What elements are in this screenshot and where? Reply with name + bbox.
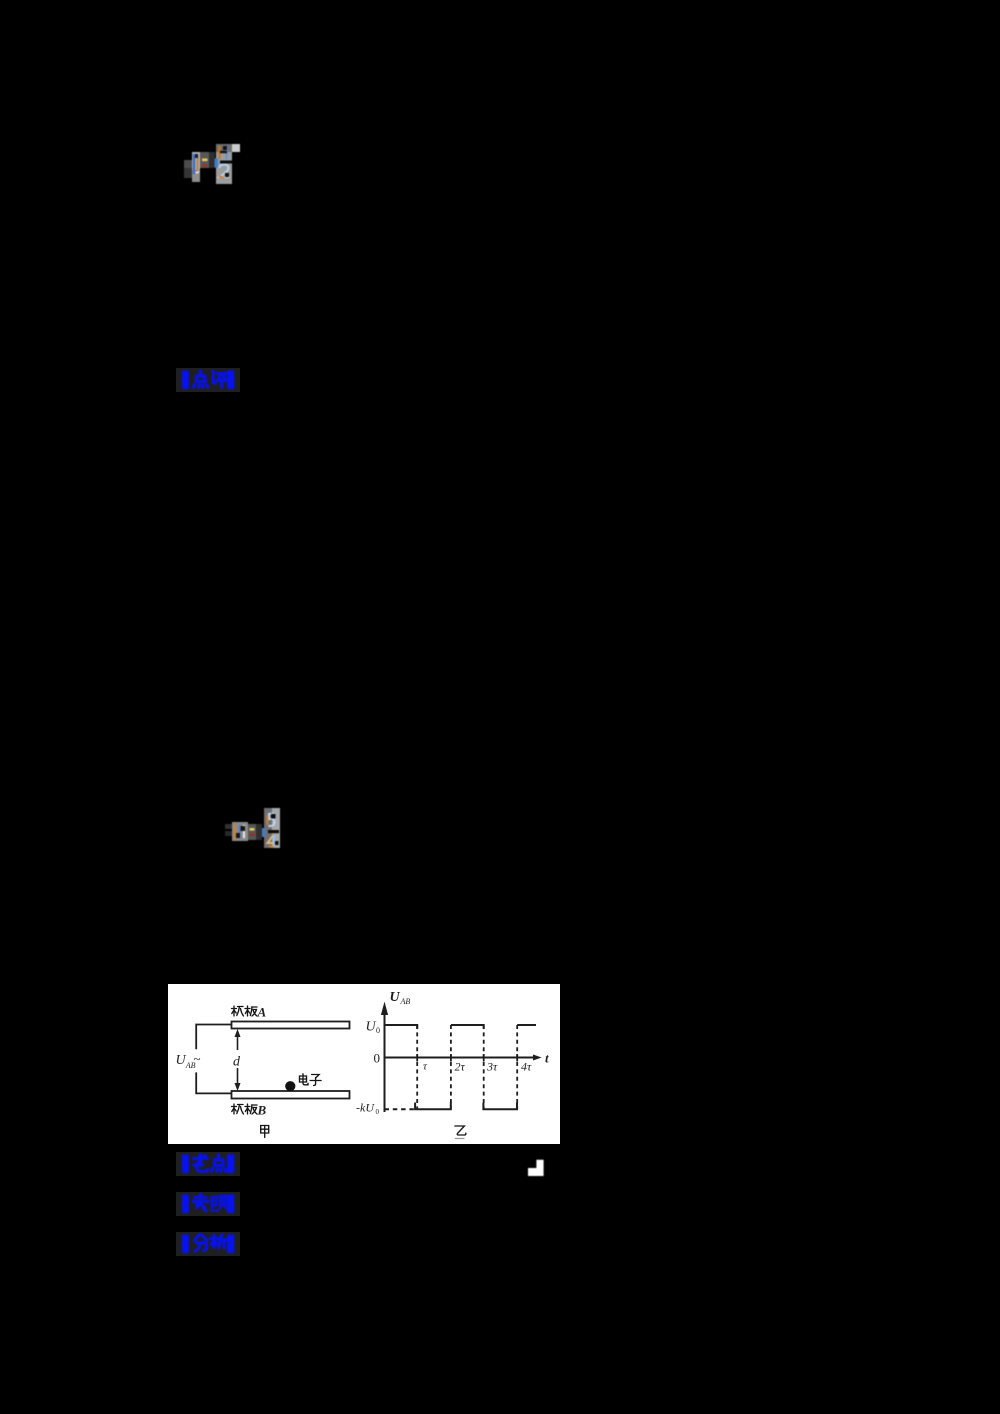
label 【专题】 <box>176 1192 240 1216</box>
svg-text:-kU: -kU <box>356 1101 375 1115</box>
arrowheads <box>235 1029 241 1037</box>
denominator 4 <box>268 836 278 844</box>
svg-text:t: t <box>545 1051 549 1066</box>
svg-text:d: d <box>233 1055 241 1070</box>
physics diagram white panel <box>168 984 560 1144</box>
svg-text:U: U <box>366 1020 377 1035</box>
svg-text:0: 0 <box>376 1108 380 1116</box>
left glyph k2 <box>234 825 236 840</box>
svg-text:U: U <box>390 990 401 1005</box>
svg-text:0: 0 <box>374 1051 381 1066</box>
题 <box>212 1196 227 1211</box>
wires <box>196 1025 231 1050</box>
wave high segments <box>385 1025 418 1029</box>
板 <box>245 1006 257 1016</box>
axis ticks <box>417 1054 517 1062</box>
gray blocks <box>184 160 192 168</box>
电 <box>300 1074 309 1085</box>
numerator H <box>218 146 220 159</box>
numerator 5 <box>269 814 275 826</box>
fraction bar <box>220 161 232 164</box>
denominator 2 <box>220 165 230 178</box>
svg-text:~: ~ <box>194 1051 201 1066</box>
svg-text:0: 0 <box>376 1026 380 1035</box>
点 <box>193 371 208 388</box>
svg-text:B: B <box>257 1103 267 1118</box>
甲 <box>261 1126 269 1138</box>
svg-text:2τ: 2τ <box>455 1060 466 1074</box>
blue bar <box>215 159 219 168</box>
equation image 1 (v = H/2) <box>178 138 246 192</box>
blue bar <box>262 828 265 837</box>
析 <box>211 1235 227 1248</box>
点 <box>211 1155 226 1172</box>
label 【考点】 <box>176 1152 240 1176</box>
left glyph (v) <box>193 154 195 174</box>
评 <box>213 372 228 388</box>
dashed verticals <box>417 1025 517 1109</box>
dashed -kU0 line <box>385 1108 416 1110</box>
label 【点评】 <box>176 368 240 392</box>
乙 <box>455 1126 466 1139</box>
fraction bar <box>268 830 279 833</box>
wave low segments <box>415 1103 451 1110</box>
svg-text:A: A <box>257 1005 267 1020</box>
label 【分析】 <box>176 1232 240 1256</box>
分 <box>195 1235 208 1252</box>
CJK labels drawn as strokes <box>232 1006 466 1139</box>
math text labels <box>176 990 550 1118</box>
white corner mark <box>0 0 1 1</box>
h axis <box>385 1057 535 1059</box>
plate A <box>232 1022 350 1029</box>
svg-text:τ: τ <box>423 1061 428 1073</box>
板 <box>245 1104 257 1114</box>
极板A : 极 <box>232 1006 244 1016</box>
equals sign <box>202 159 208 162</box>
plate B <box>232 1091 350 1099</box>
考 <box>194 1155 208 1172</box>
专 <box>193 1195 208 1212</box>
v axis <box>384 1014 386 1112</box>
svg-text:4τ: 4τ <box>521 1060 532 1074</box>
electron dot <box>285 1081 295 1091</box>
svg-text:AB: AB <box>400 997 411 1006</box>
极板B : 极 <box>232 1104 244 1114</box>
equation image 2 (k = 5/4) <box>225 795 287 853</box>
子 <box>310 1075 321 1086</box>
svg-text:3τ: 3τ <box>486 1060 498 1074</box>
d arrow shafts <box>237 1036 239 1051</box>
equals <box>250 828 255 831</box>
